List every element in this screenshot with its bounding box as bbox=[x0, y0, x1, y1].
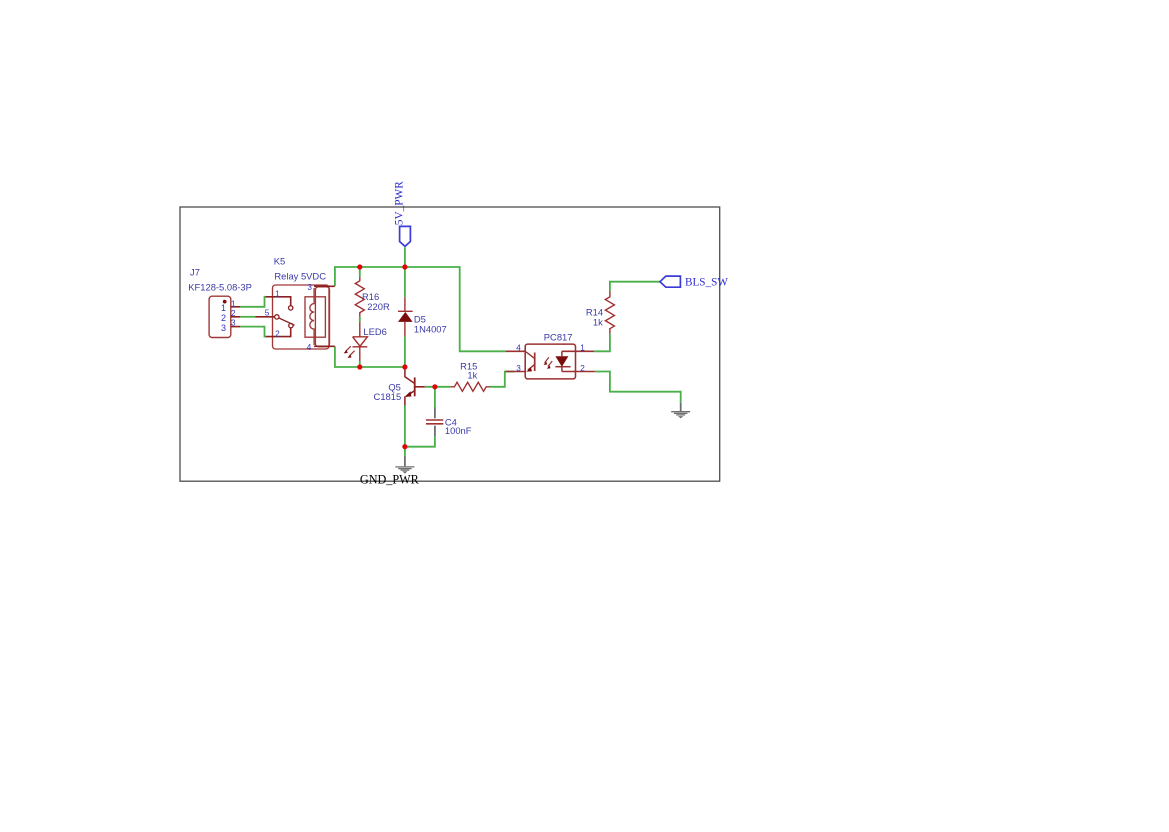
svg-text:3: 3 bbox=[231, 319, 236, 328]
svg-text:2: 2 bbox=[275, 329, 280, 338]
svg-text:1: 1 bbox=[580, 343, 585, 352]
svg-text:220R: 220R bbox=[367, 301, 390, 312]
svg-text:1k: 1k bbox=[593, 317, 603, 328]
svg-text:4: 4 bbox=[516, 343, 521, 352]
svg-text:5V_PWR: 5V_PWR bbox=[393, 181, 405, 225]
svg-text:3: 3 bbox=[221, 323, 226, 333]
svg-text:1: 1 bbox=[221, 303, 226, 313]
svg-text:PC817: PC817 bbox=[544, 332, 573, 343]
svg-text:1k: 1k bbox=[467, 369, 477, 380]
svg-text:J7: J7 bbox=[190, 267, 200, 278]
svg-text:4: 4 bbox=[307, 343, 312, 352]
svg-text:3: 3 bbox=[307, 283, 312, 292]
svg-text:3: 3 bbox=[516, 364, 521, 373]
svg-text:5: 5 bbox=[265, 309, 270, 318]
svg-text:K5: K5 bbox=[274, 255, 285, 266]
svg-text:2: 2 bbox=[231, 309, 236, 318]
svg-text:KF128-5.08-3P: KF128-5.08-3P bbox=[188, 282, 252, 293]
svg-text:C1815: C1815 bbox=[374, 391, 402, 402]
svg-text:GND_PWR: GND_PWR bbox=[360, 472, 420, 486]
svg-text:BLS_SW: BLS_SW bbox=[685, 277, 728, 289]
svg-text:1: 1 bbox=[231, 299, 236, 308]
svg-text:1: 1 bbox=[275, 290, 280, 299]
svg-text:Relay 5VDC: Relay 5VDC bbox=[274, 271, 326, 282]
svg-text:LED6: LED6 bbox=[363, 326, 386, 337]
svg-text:2: 2 bbox=[580, 364, 585, 373]
svg-text:100nF: 100nF bbox=[445, 425, 472, 436]
svg-text:2: 2 bbox=[221, 313, 226, 323]
svg-text:1N4007: 1N4007 bbox=[414, 324, 447, 335]
